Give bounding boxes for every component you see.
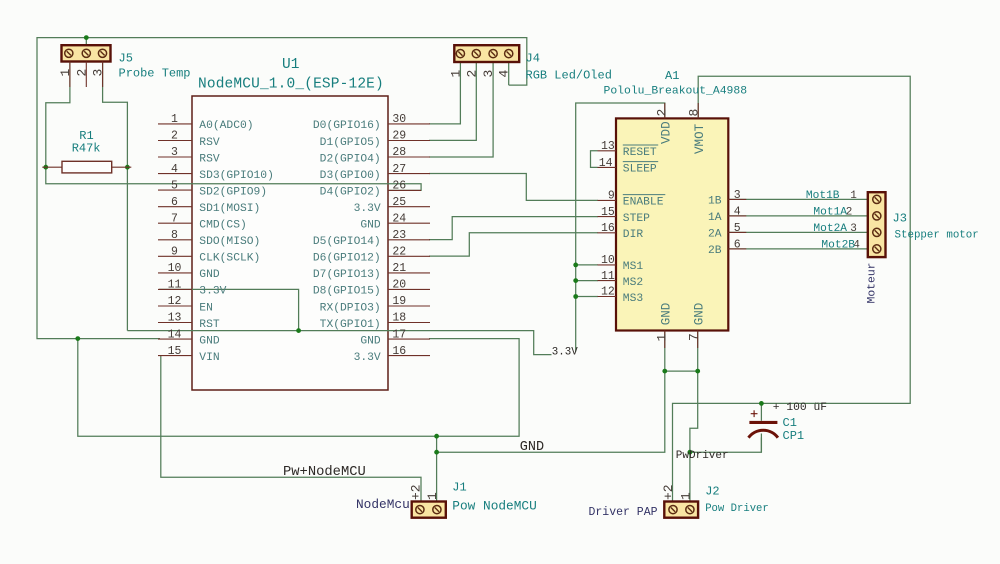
pin 27 stub U1 right xyxy=(388,173,430,175)
svg-text:15: 15 xyxy=(168,345,182,358)
resistor R1 body xyxy=(62,161,112,173)
svg-text:1: 1 xyxy=(448,70,463,78)
svg-text:EN: EN xyxy=(199,302,213,314)
pin stub A1 1B xyxy=(728,198,746,200)
svg-text:Mot2A: Mot2A xyxy=(813,223,847,235)
svg-text:C1: C1 xyxy=(783,416,797,430)
wire C1 plus lead xyxy=(760,403,762,420)
wire J5 pin2 drop to GND rail xyxy=(85,38,87,46)
svg-text:15: 15 xyxy=(601,206,615,219)
screw terminal J2.1 xyxy=(686,506,694,514)
pin 1 stub U1 left xyxy=(158,123,192,125)
svg-text:DIR: DIR xyxy=(623,229,644,241)
svg-text:2: 2 xyxy=(464,70,479,78)
pin 5 stub U1 left xyxy=(158,189,192,191)
svg-text:J3: J3 xyxy=(893,212,907,226)
wire GND mid drop to bottom rail and U1 pin17 xyxy=(78,339,519,437)
pin 22 stub U1 right xyxy=(388,255,430,257)
pin 9 stub U1 left xyxy=(158,255,192,257)
svg-text:D2(GPIO4): D2(GPIO4) xyxy=(320,153,381,165)
wire Mot1A xyxy=(728,215,868,217)
svg-text:J2: J2 xyxy=(705,485,719,499)
pin 19 stub U1 right xyxy=(388,305,430,307)
svg-text:+2: +2 xyxy=(661,484,676,500)
svg-text:3.3V: 3.3V xyxy=(552,347,578,359)
wire GND link between A1 ground pins xyxy=(665,370,698,372)
node junction MS2 xyxy=(573,278,578,283)
svg-text:GND: GND xyxy=(199,335,220,347)
pin 1 stub J5 xyxy=(69,62,71,88)
svg-text:18: 18 xyxy=(392,312,406,325)
screw terminal J3.1 xyxy=(873,195,881,203)
wire Mot1B xyxy=(728,198,868,200)
wire C1 minus lead xyxy=(760,434,762,453)
node junction GND mid xyxy=(75,336,80,341)
wire U1 D3(GPIO0) to A1 ENABLE xyxy=(429,174,598,201)
svg-text:Driver PAP: Driver PAP xyxy=(589,506,658,519)
svg-text:3: 3 xyxy=(91,69,106,77)
screw terminal J3.3 xyxy=(873,228,881,236)
pin stub A1 DIR xyxy=(598,232,617,234)
svg-text:1: 1 xyxy=(58,69,73,77)
svg-text:6: 6 xyxy=(171,196,178,209)
wire A1 GND pin7 to J2 pin1 xyxy=(690,331,698,502)
svg-text:MS1: MS1 xyxy=(623,261,644,273)
svg-text:Mot1B: Mot1B xyxy=(806,190,840,202)
svg-text:NodeMcu: NodeMcu xyxy=(356,497,410,512)
svg-text:26: 26 xyxy=(392,179,406,192)
svg-text:RSV: RSV xyxy=(199,153,220,165)
svg-text:D1(GPIO5): D1(GPIO5) xyxy=(320,137,381,149)
svg-text:SLEEP: SLEEP xyxy=(623,164,657,176)
overline ENABLE xyxy=(623,194,666,196)
svg-text:1: 1 xyxy=(678,492,693,500)
svg-text:TX(GPIO1): TX(GPIO1) xyxy=(320,319,381,331)
ic A1 Pololu A4988 body xyxy=(616,118,728,330)
pin 11 stub U1 left xyxy=(158,288,192,290)
svg-text:Pow NodeMCU: Pow NodeMCU xyxy=(452,499,536,514)
svg-text:5: 5 xyxy=(734,222,741,235)
svg-text:23: 23 xyxy=(392,229,406,242)
pin 4 stub U1 left xyxy=(158,173,192,175)
svg-text:Mot1A: Mot1A xyxy=(813,206,847,218)
svg-text:17: 17 xyxy=(392,328,406,341)
svg-text:19: 19 xyxy=(392,295,406,308)
svg-text:RST: RST xyxy=(199,319,220,331)
connector J2 body xyxy=(664,502,698,518)
resistor R1 leads xyxy=(42,166,62,168)
svg-text:2: 2 xyxy=(171,130,178,143)
screw terminal J1.1 xyxy=(433,506,441,514)
svg-text:2B: 2B xyxy=(708,245,722,257)
svg-text:7: 7 xyxy=(686,333,701,341)
wire Mot2A xyxy=(728,231,868,233)
wire RESET-SLEEP tie xyxy=(591,151,598,168)
node junction GND/J5.2 xyxy=(84,35,89,40)
svg-text:RSV: RSV xyxy=(199,137,220,149)
svg-text:Pw+NodeMCU: Pw+NodeMCU xyxy=(283,464,366,480)
pin 26 stub U1 right xyxy=(388,189,421,191)
svg-text:U1: U1 xyxy=(282,57,299,73)
svg-text:4: 4 xyxy=(497,70,512,78)
svg-text:Probe Temp: Probe Temp xyxy=(119,67,191,81)
node junction MS3 xyxy=(573,294,578,299)
pin stub A1 2B xyxy=(728,248,746,250)
svg-text:RGB Led/Oled: RGB Led/Oled xyxy=(526,69,612,83)
screw terminal J4.4 xyxy=(505,50,513,58)
wire A1 GND pin1 stub xyxy=(664,331,666,372)
screw terminal J4.3 xyxy=(489,50,497,58)
pin 20 stub U1 right xyxy=(388,288,430,290)
svg-text:GND: GND xyxy=(520,440,544,455)
wire J5 pin3 to R1 right 3.3V net xyxy=(103,62,128,331)
svg-text:3: 3 xyxy=(171,146,178,159)
svg-text:CLK(SCLK): CLK(SCLK) xyxy=(199,253,260,265)
svg-text:14: 14 xyxy=(168,328,182,341)
pin 8 stub U1 left xyxy=(158,239,192,241)
svg-text:Mot2B: Mot2B xyxy=(821,239,855,251)
wire J4 pin3 to U1 D2 xyxy=(429,62,493,158)
node junction D4/R1 left xyxy=(43,165,48,170)
svg-text:D7(GPIO13): D7(GPIO13) xyxy=(313,269,381,281)
screw terminal J5.1 xyxy=(65,49,73,57)
wire 3.3V crossing to label xyxy=(127,331,551,355)
pin 15 stub U1 left xyxy=(158,355,192,357)
svg-text:Moteur: Moteur xyxy=(866,262,878,303)
svg-text:SD1(MOSI): SD1(MOSI) xyxy=(199,203,260,215)
svg-text:GND: GND xyxy=(360,335,381,347)
pin 2 stub U1 left xyxy=(158,140,192,142)
pin 7 stub U1 left xyxy=(158,222,192,224)
pin 17 stub U1 right xyxy=(388,338,430,340)
pin stub A1 VDD xyxy=(664,103,666,118)
svg-text:20: 20 xyxy=(392,279,406,292)
pin 18 stub U1 right xyxy=(388,322,430,324)
svg-text:4: 4 xyxy=(171,163,178,176)
svg-text:13: 13 xyxy=(601,140,615,153)
node junction 3V3 cross xyxy=(296,328,301,333)
svg-text:8: 8 xyxy=(171,229,178,242)
pin stub A1 1A xyxy=(728,215,746,217)
screw terminal J4.1 xyxy=(456,50,464,58)
capacitor C1 bottom plate arc xyxy=(749,430,778,437)
svg-text:21: 21 xyxy=(392,262,406,275)
svg-text:2: 2 xyxy=(74,69,89,77)
connector J3 body xyxy=(868,192,886,257)
svg-text:D0(GPIO16): D0(GPIO16) xyxy=(313,120,381,132)
screw terminal J3.4 xyxy=(873,245,881,253)
screw terminal J3.2 xyxy=(873,212,881,220)
svg-text:2: 2 xyxy=(655,109,670,117)
wire Mot2B xyxy=(728,248,868,250)
connector J1 body xyxy=(412,502,446,518)
pin stub A1 MS1 xyxy=(598,264,617,266)
wire PwDriver from J2 pin+2 up right rail to A1 VMOT xyxy=(673,76,911,501)
svg-text:3: 3 xyxy=(481,70,496,78)
svg-text:R47k: R47k xyxy=(72,142,101,156)
pin stub A1 2A xyxy=(728,231,746,233)
svg-text:22: 22 xyxy=(392,246,406,259)
svg-text:11: 11 xyxy=(168,279,182,292)
svg-text:GND: GND xyxy=(659,303,673,326)
node junction J1.1 lower xyxy=(434,450,439,455)
svg-text:SDO(MISO): SDO(MISO) xyxy=(199,236,260,248)
pin 21 stub U1 right xyxy=(388,272,430,274)
pin stub A1 GND1 xyxy=(664,331,666,349)
svg-text:MS3: MS3 xyxy=(623,293,644,305)
pin 3 stub J5 xyxy=(102,62,104,88)
wire U1 D6(GPIO12) to A1 DIR xyxy=(429,233,598,256)
overline SLEEP xyxy=(623,161,658,163)
svg-text:16: 16 xyxy=(392,345,406,358)
svg-text:RX(DPIO3): RX(DPIO3) xyxy=(320,302,381,314)
pin 6 stub U1 left xyxy=(158,206,192,208)
svg-text:1: 1 xyxy=(850,190,857,202)
pin 28 stub U1 right xyxy=(388,156,430,158)
svg-text:6: 6 xyxy=(734,239,741,252)
pin stub A1 GND7 xyxy=(697,331,699,349)
svg-text:28: 28 xyxy=(392,146,406,159)
svg-text:30: 30 xyxy=(392,113,406,126)
svg-text:CP1: CP1 xyxy=(783,429,805,443)
svg-text:9: 9 xyxy=(608,190,615,203)
pin 24 stub U1 right xyxy=(388,222,430,224)
svg-text:D3(GPIO0): D3(GPIO0) xyxy=(320,170,381,182)
node junction MS1 xyxy=(573,263,578,268)
svg-text:VDD: VDD xyxy=(659,121,673,144)
svg-text:GND: GND xyxy=(199,269,220,281)
svg-text:GND: GND xyxy=(360,220,381,232)
svg-text:10: 10 xyxy=(168,262,182,275)
svg-text:3.3V: 3.3V xyxy=(354,352,381,364)
pin 23 stub U1 right xyxy=(388,239,430,241)
svg-text:Stepper motor: Stepper motor xyxy=(895,230,979,242)
connector J5 body xyxy=(62,45,111,61)
svg-text:1A: 1A xyxy=(708,212,722,224)
screw terminal J1.2 xyxy=(416,506,424,514)
svg-text:4: 4 xyxy=(734,206,741,219)
node junction C1 plus xyxy=(759,401,764,406)
svg-text:11: 11 xyxy=(601,270,615,283)
screw terminal J5.3 xyxy=(98,49,106,57)
screw terminal J5.2 xyxy=(82,49,90,57)
svg-text:1: 1 xyxy=(654,334,669,342)
svg-text:D6(GPIO12): D6(GPIO12) xyxy=(313,253,381,265)
pin 13 stub U1 left xyxy=(158,322,192,324)
svg-text:3: 3 xyxy=(734,189,741,202)
connector J4 body xyxy=(454,45,519,62)
svg-text:5: 5 xyxy=(171,179,178,192)
svg-text:J5: J5 xyxy=(119,52,133,66)
wire GND from J2 pin1 junction to C1 minus xyxy=(690,438,762,453)
svg-text:1: 1 xyxy=(171,113,178,126)
svg-text:Pololu_Breakout_A4988: Pololu_Breakout_A4988 xyxy=(604,86,748,98)
capacitor C1 plus sign xyxy=(751,410,758,417)
pin 16 stub U1 right xyxy=(388,355,430,357)
svg-text:VMOT: VMOT xyxy=(693,123,707,154)
svg-text:J4: J4 xyxy=(526,52,540,66)
svg-text:13: 13 xyxy=(168,312,182,325)
svg-text:SD3(GPIO10): SD3(GPIO10) xyxy=(199,170,274,182)
svg-text:10: 10 xyxy=(601,254,615,267)
svg-text:RESET: RESET xyxy=(623,147,657,159)
svg-text:STEP: STEP xyxy=(623,213,650,225)
svg-text:MS2: MS2 xyxy=(623,277,643,289)
svg-text:25: 25 xyxy=(392,196,406,209)
wire GND bottom to A1 pin1 xyxy=(437,371,665,452)
svg-text:24: 24 xyxy=(392,212,406,225)
svg-text:16: 16 xyxy=(601,222,615,235)
svg-text:D8(GPIO15): D8(GPIO15) xyxy=(313,286,381,298)
node junction J1.1 upper xyxy=(434,434,439,439)
svg-text:D5(GPIO14): D5(GPIO14) xyxy=(313,236,381,248)
svg-text:3.3V: 3.3V xyxy=(354,203,381,215)
wire MS3 tie xyxy=(576,296,598,298)
wire U1 pin11 3.3V link xyxy=(159,289,299,330)
svg-text:ENABLE: ENABLE xyxy=(623,197,664,209)
svg-text:1B: 1B xyxy=(708,196,722,208)
node junction J2.1 xyxy=(688,450,693,455)
svg-text:VIN: VIN xyxy=(199,352,219,364)
pin stub A1 ENABLE xyxy=(598,199,617,201)
wire GND top rail from J4 pin4 to left rail down to U1 pin 14 xyxy=(37,38,527,339)
svg-text:A0(ADC0): A0(ADC0) xyxy=(199,120,253,132)
screw terminal J2.2 xyxy=(669,506,677,514)
svg-text:D4(GPIO2): D4(GPIO2) xyxy=(320,186,381,198)
svg-text:7: 7 xyxy=(171,212,178,225)
svg-text:SD2(GPIO9): SD2(GPIO9) xyxy=(199,186,267,198)
wire U1 D5(GPIO14) to A1 STEP xyxy=(429,217,598,240)
svg-text:Pow Driver: Pow Driver xyxy=(705,503,769,515)
svg-text:29: 29 xyxy=(392,130,406,143)
svg-text:PwDriver: PwDriver xyxy=(676,450,729,462)
svg-text:CMD(CS): CMD(CS) xyxy=(199,220,246,232)
wire J1 pin1 GND drop xyxy=(436,436,438,501)
pin stub A1 MS3 xyxy=(598,296,617,298)
pin 14 stub U1 left xyxy=(158,338,192,340)
screw terminal J4.2 xyxy=(472,50,480,58)
node junction 3V3/R1 right xyxy=(125,165,130,170)
overline RESET xyxy=(623,144,658,146)
svg-text:NodeMCU_1.0_(ESP-12E): NodeMCU_1.0_(ESP-12E) xyxy=(198,77,384,93)
svg-text:27: 27 xyxy=(392,163,406,176)
svg-text:1: 1 xyxy=(425,492,440,500)
svg-text:2A: 2A xyxy=(708,229,722,241)
wire J5 pin1 via R1 left to U1 pin26 D4(GPIO2) xyxy=(46,62,421,191)
pin stub A1 MS2 xyxy=(598,280,617,282)
pin 30 stub U1 right xyxy=(388,123,430,125)
pin 2 stub J5 xyxy=(85,62,87,88)
pin stub A1 SLEEP xyxy=(598,166,617,168)
svg-text:12: 12 xyxy=(601,286,615,299)
svg-text:+2: +2 xyxy=(409,484,424,500)
pin 3 stub U1 left xyxy=(158,156,192,158)
pin 10 stub U1 left xyxy=(158,272,192,274)
pin 25 stub U1 right xyxy=(388,206,430,208)
svg-text:J1: J1 xyxy=(452,481,466,495)
wire J4 pin4 to GND rail xyxy=(508,62,510,86)
wire MS1 tie xyxy=(576,264,598,266)
node junction A1 GND1 xyxy=(662,369,667,374)
svg-text:9: 9 xyxy=(171,246,178,259)
pin 12 stub U1 left xyxy=(158,305,192,307)
pin stub A1 RESET xyxy=(598,150,617,152)
pin stub A1 STEP xyxy=(598,216,617,218)
wire MS2 tie xyxy=(576,280,598,282)
ic U1 NodeMCU body xyxy=(192,96,388,390)
wire 3.3V to A1 VDD and MS rail xyxy=(576,103,665,352)
svg-text:GND: GND xyxy=(692,303,706,326)
svg-text:14: 14 xyxy=(599,157,613,170)
svg-text:A1: A1 xyxy=(665,69,679,83)
pin 29 stub U1 right xyxy=(388,140,430,142)
pin stub A1 VMOT xyxy=(697,103,699,118)
wire J4 pin2 to U1 D1 xyxy=(429,62,476,141)
node junction A1 GND7 xyxy=(695,369,700,374)
svg-text:3: 3 xyxy=(850,223,857,235)
capacitor C1 top plate xyxy=(749,421,777,424)
svg-text:12: 12 xyxy=(168,295,182,308)
wire J4 pin1 to U1 D0 xyxy=(429,62,460,124)
svg-text:3.3V: 3.3V xyxy=(199,286,226,298)
wire Pw+NodeMCU from U1 VIN to J1 pin +2 xyxy=(161,356,421,502)
svg-text:+ 100 üF: + 100 üF xyxy=(773,402,827,414)
svg-text:8: 8 xyxy=(686,109,701,117)
